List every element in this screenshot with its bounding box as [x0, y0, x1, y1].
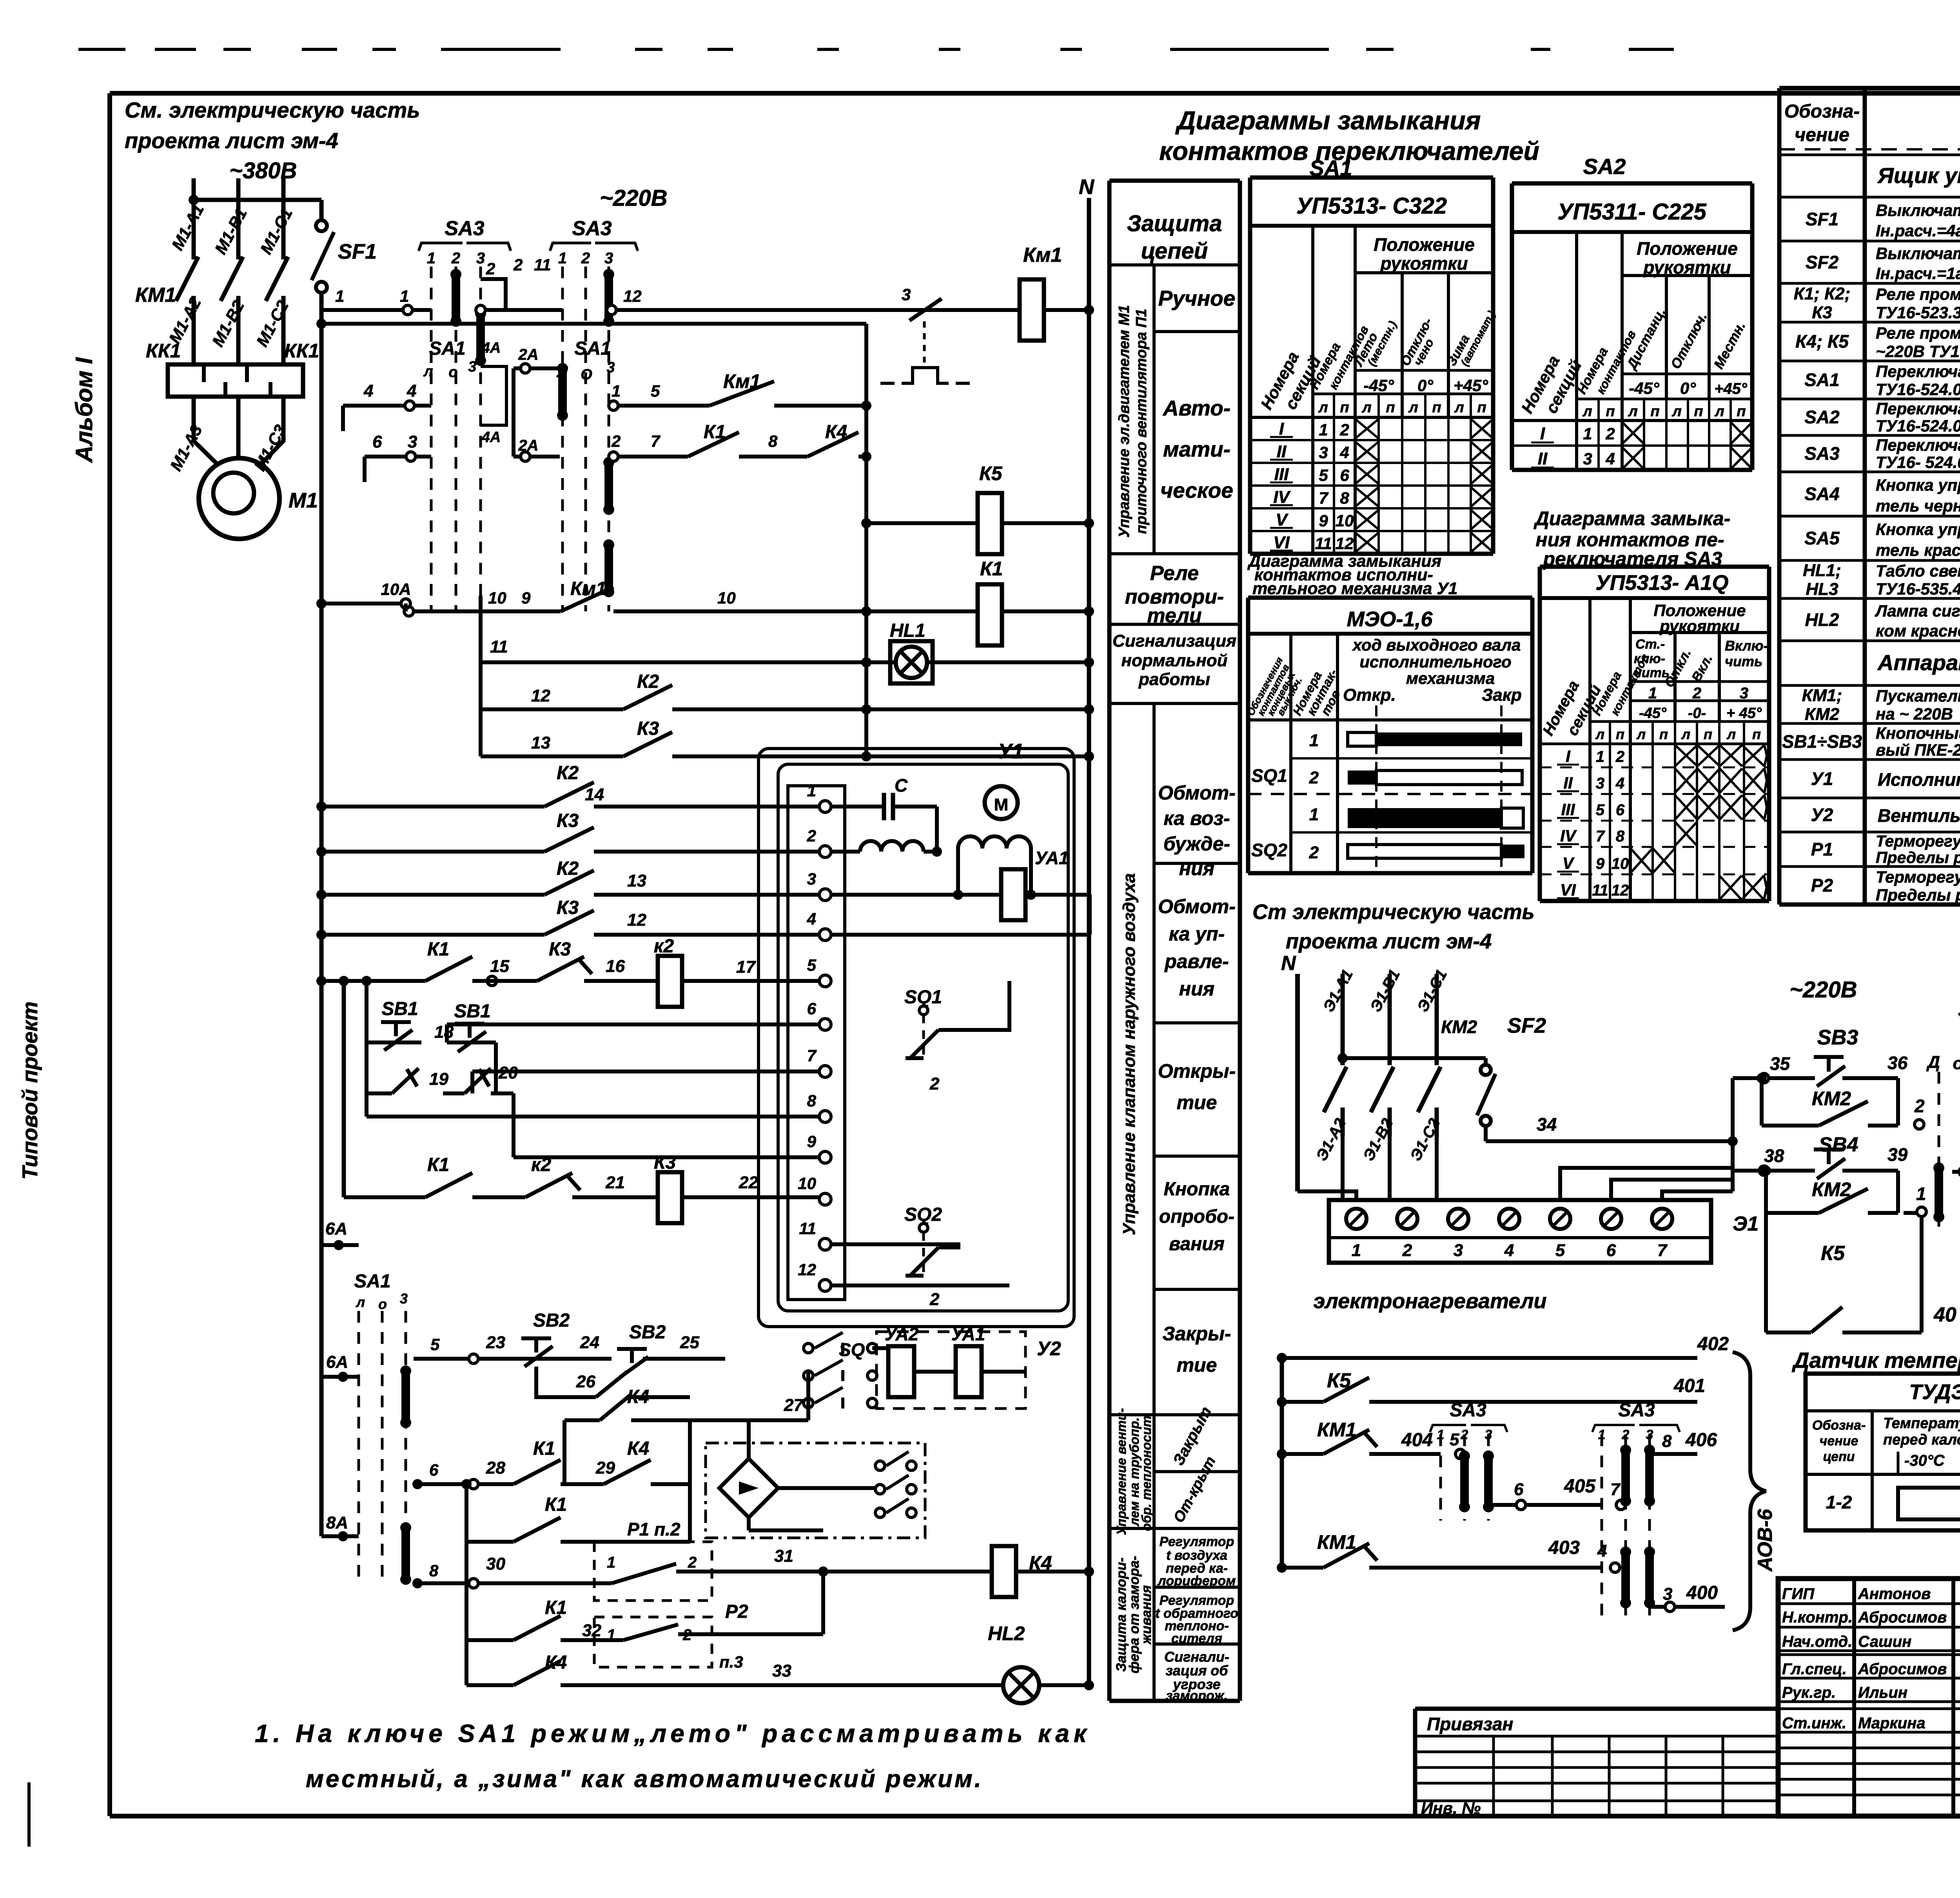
- svg-text:9: 9: [1319, 511, 1328, 530]
- svg-text:тель красный „Стоп" ТУ16-526.4: тель красный „Стоп" ТУ16-526.407-76: [1876, 541, 1960, 559]
- svg-text:II: II: [1563, 774, 1573, 792]
- svg-text:2: 2: [929, 1290, 940, 1309]
- svg-text:ТУ16-523.331-78: ТУ16-523.331-78: [1876, 303, 1960, 322]
- svg-text:ком красного цвета ТУ16-535.4: ком красного цвета ТУ16-535.417-75: [1876, 622, 1960, 640]
- svg-text:7: 7: [651, 432, 661, 450]
- svg-text:1: 1: [612, 382, 621, 400]
- svg-text:клю-: клю-: [1634, 651, 1665, 666]
- svg-text:Д: Д: [1926, 1053, 1940, 1072]
- svg-text:Абросимов: Абросимов: [1858, 1609, 1947, 1626]
- svg-text:7: 7: [807, 1046, 817, 1065]
- svg-text:Переключатель универсальный УП: Переключатель универсальный УП5313-А19: [1876, 436, 1960, 454]
- svg-text:1: 1: [1583, 424, 1592, 443]
- svg-text:1: 1: [1309, 731, 1319, 750]
- svg-text:VI: VI: [1560, 881, 1576, 899]
- svg-text:Управление эл.двигателем М1: Управление эл.двигателем М1: [1116, 305, 1132, 538]
- svg-text:402: 402: [1697, 1334, 1729, 1354]
- svg-text:Обозна-: Обозна-: [1784, 101, 1860, 122]
- svg-text:рукоятки: рукоятки: [1659, 617, 1740, 635]
- svg-text:л: л: [1714, 403, 1724, 420]
- svg-text:перед калорифером: перед калорифером: [1883, 1432, 1960, 1448]
- svg-text:6: 6: [1514, 1480, 1524, 1499]
- svg-text:4: 4: [1339, 443, 1349, 462]
- svg-text:SB1: SB1: [454, 1001, 490, 1022]
- svg-text:Обмот-: Обмот-: [1158, 782, 1236, 804]
- svg-text:3: 3: [400, 1291, 408, 1307]
- svg-text:8А: 8А: [326, 1513, 348, 1532]
- svg-text:2А: 2А: [518, 346, 538, 363]
- svg-text:HL2: HL2: [1805, 609, 1839, 630]
- svg-text:К1: К1: [980, 558, 1003, 580]
- svg-text:МЭО-1,6: МЭО-1,6: [1347, 607, 1433, 631]
- svg-text:~220В ТУ16-523.331-78: ~220В ТУ16-523.331-78: [1876, 342, 1960, 361]
- svg-text:10: 10: [798, 1174, 816, 1193]
- svg-text:406: 406: [1685, 1430, 1717, 1450]
- svg-text:7: 7: [1596, 828, 1605, 845]
- svg-text:рукоятки: рукоятки: [1379, 253, 1468, 274]
- svg-text:II: II: [1277, 442, 1287, 461]
- svg-text:равле-: равле-: [1164, 950, 1229, 972]
- svg-text:К1: К1: [533, 1438, 555, 1459]
- svg-text:SB2: SB2: [533, 1310, 570, 1331]
- svg-text:3: 3: [1454, 1241, 1463, 1260]
- svg-text:п: п: [1606, 403, 1615, 420]
- svg-text:п: п: [1659, 726, 1668, 742]
- svg-text:механизма: механизма: [1406, 669, 1495, 687]
- svg-text:К2: К2: [637, 671, 659, 692]
- svg-text:Iн.расч.=1а;Iотс=1,3Iн ТУ16-: Iн.расч.=1а;Iотс=1,3Iн ТУ16-522.110-74: [1876, 264, 1960, 283]
- svg-text:УП5313- А1Q: УП5313- А1Q: [1595, 571, 1729, 595]
- svg-text:л: л: [1454, 399, 1464, 416]
- svg-text:2: 2: [581, 250, 590, 267]
- svg-text:УА1: УА1: [951, 1324, 985, 1344]
- svg-text:SA4: SA4: [1804, 484, 1839, 504]
- svg-text:22: 22: [739, 1173, 758, 1192]
- svg-text:SВ4: SВ4: [1818, 1133, 1858, 1156]
- svg-text:Пределы регулирования от-30°С: Пределы регулирования от-30°С до+40°С: [1876, 848, 1960, 867]
- svg-text:2: 2: [513, 256, 523, 274]
- svg-text:8: 8: [1340, 489, 1349, 507]
- svg-text:КМ1: КМ1: [1317, 1531, 1356, 1553]
- svg-text:ТУ16- 524.074-75: ТУ16- 524.074-75: [1876, 453, 1960, 471]
- svg-text:Кнопка: Кнопка: [1164, 1179, 1230, 1200]
- svg-text:12: 12: [1612, 882, 1629, 899]
- svg-text:14: 14: [585, 785, 604, 804]
- svg-text:п: п: [1650, 403, 1659, 420]
- svg-text:Защита: Защита: [1127, 211, 1222, 236]
- svg-text:3: 3: [604, 250, 613, 267]
- svg-text:проекта лист эм-4: проекта лист эм-4: [1286, 930, 1492, 953]
- svg-text:10: 10: [1336, 511, 1354, 530]
- svg-text:38: 38: [1764, 1146, 1784, 1166]
- svg-text:исполнительного: исполнительного: [1359, 653, 1511, 671]
- svg-text:12: 12: [623, 287, 642, 305]
- svg-text:9: 9: [521, 589, 531, 607]
- svg-text:вания: вания: [1169, 1234, 1225, 1254]
- svg-text:13: 13: [627, 871, 646, 890]
- svg-text:3: 3: [1596, 775, 1604, 792]
- svg-text:УП5313- С322: УП5313- С322: [1296, 193, 1447, 219]
- svg-text:ТУ16-524.074-75: ТУ16-524.074-75: [1876, 417, 1960, 435]
- svg-text:N: N: [1079, 175, 1094, 199]
- svg-text:КМ1;: КМ1;: [1802, 686, 1842, 705]
- svg-text:п: п: [1477, 399, 1486, 416]
- svg-text:SA3: SA3: [1804, 443, 1840, 464]
- svg-text:404: 404: [1401, 1430, 1433, 1450]
- svg-text:1: 1: [558, 250, 567, 267]
- svg-text:5: 5: [651, 382, 660, 400]
- svg-text:SA1: SA1: [1804, 370, 1839, 390]
- svg-text:28: 28: [486, 1458, 505, 1477]
- svg-text:К5: К5: [979, 462, 1003, 484]
- svg-text:1: 1: [1352, 1241, 1361, 1260]
- svg-text:0°: 0°: [1417, 376, 1434, 395]
- svg-text:2: 2: [1339, 421, 1349, 439]
- svg-text:-45°: -45°: [1363, 376, 1394, 395]
- svg-text:цепи: цепи: [1823, 1449, 1855, 1464]
- svg-text:4: 4: [1597, 1541, 1607, 1561]
- svg-text:3: 3: [408, 432, 417, 451]
- svg-text:Реле: Реле: [1150, 562, 1199, 585]
- svg-text:4: 4: [407, 381, 416, 401]
- svg-text:35: 35: [1770, 1053, 1791, 1074]
- svg-text:тель черный „пуск" ТУ 16-526.: тель черный „пуск" ТУ 16-526.407-76: [1876, 497, 1960, 515]
- svg-text:Абросимов: Абросимов: [1858, 1661, 1947, 1678]
- svg-text:6: 6: [1606, 1241, 1616, 1260]
- svg-text:3: 3: [1740, 685, 1748, 702]
- svg-text:39: 39: [1887, 1144, 1908, 1165]
- svg-text:2: 2: [451, 250, 460, 267]
- svg-text:III: III: [1274, 465, 1289, 484]
- svg-text:С: С: [895, 775, 908, 796]
- svg-text:13: 13: [531, 733, 550, 752]
- svg-text:11: 11: [490, 637, 508, 656]
- svg-text:К1: К1: [427, 939, 449, 960]
- svg-text:IV: IV: [1273, 488, 1291, 507]
- svg-text:405: 405: [1564, 1476, 1596, 1497]
- svg-text:1: 1: [1596, 748, 1604, 765]
- svg-text:I: I: [1566, 747, 1571, 765]
- svg-text:+45°: +45°: [1454, 376, 1488, 395]
- svg-text:5: 5: [1596, 801, 1605, 819]
- svg-text:У1: У1: [998, 740, 1024, 763]
- svg-text:Реле промежуточное РПУ-2-36420: Реле промежуточное РПУ-2-36420343;~220В: [1876, 285, 1960, 303]
- svg-text:SF2: SF2: [1806, 252, 1839, 272]
- svg-text:33: 33: [772, 1661, 791, 1680]
- svg-text:9: 9: [1596, 855, 1605, 872]
- svg-text:М1: М1: [289, 489, 318, 512]
- svg-text:25: 25: [680, 1333, 699, 1352]
- svg-text:5: 5: [1319, 466, 1328, 484]
- svg-text:живания: живания: [1139, 1585, 1154, 1645]
- svg-text:п: п: [1752, 726, 1761, 742]
- svg-text:заморож.: заморож.: [1166, 1688, 1228, 1703]
- svg-text:тельного механизма У1: тельного механизма У1: [1252, 579, 1457, 598]
- svg-text:6: 6: [1340, 466, 1349, 484]
- svg-text:2: 2: [1402, 1241, 1412, 1260]
- svg-text:SB1: SB1: [381, 999, 418, 1019]
- svg-text:9: 9: [807, 1132, 817, 1151]
- svg-text:КК1: КК1: [284, 340, 319, 362]
- svg-text:2: 2: [688, 1554, 697, 1571]
- svg-text:л: л: [1582, 403, 1592, 420]
- svg-text:30: 30: [486, 1554, 505, 1574]
- svg-text:п: п: [1340, 399, 1349, 416]
- svg-text:34: 34: [1537, 1114, 1557, 1135]
- svg-text:Диаграммы замыкания: Диаграммы замыкания: [1175, 106, 1481, 135]
- svg-text:II: II: [1538, 449, 1548, 468]
- svg-text:к2: к2: [654, 936, 674, 957]
- svg-text:ния контактов пе-: ния контактов пе-: [1535, 529, 1724, 551]
- svg-text:Ст.инж.: Ст.инж.: [1782, 1715, 1846, 1732]
- svg-text:УА1: УА1: [1035, 848, 1069, 868]
- svg-text:12: 12: [1336, 534, 1354, 553]
- svg-text:Реле промежуточное РПУ-2-36220: Реле промежуточное РПУ-2-36220343: [1876, 324, 1960, 342]
- svg-text:8: 8: [807, 1091, 817, 1110]
- svg-text:лорифером: лорифером: [1157, 1574, 1236, 1588]
- svg-text:Р1: Р1: [1811, 839, 1833, 859]
- svg-text:обр. теплоносит.: обр. теплоносит.: [1139, 1412, 1154, 1531]
- svg-text:Гл.спец.: Гл.спец.: [1782, 1661, 1847, 1678]
- svg-text:7: 7: [1657, 1241, 1668, 1260]
- svg-text:403: 403: [1548, 1537, 1580, 1558]
- svg-text:-0-: -0-: [1688, 705, 1706, 721]
- svg-text:SB3: SB3: [1817, 1026, 1858, 1049]
- svg-text:40: 40: [1933, 1303, 1956, 1326]
- svg-text:SB1÷SB3: SB1÷SB3: [1782, 731, 1862, 752]
- svg-text:Управление венти-: Управление венти-: [1114, 1408, 1129, 1535]
- svg-text:2: 2: [486, 259, 495, 278]
- svg-text:2: 2: [1692, 685, 1701, 702]
- svg-text:10А: 10А: [381, 580, 411, 598]
- svg-text:Рук.гр.: Рук.гр.: [1782, 1684, 1836, 1701]
- svg-text:SQ1: SQ1: [1251, 765, 1287, 786]
- svg-text:Привязан: Привязан: [1427, 1714, 1513, 1734]
- svg-text:I: I: [1540, 424, 1545, 443]
- svg-text:К1: К1: [427, 1155, 449, 1175]
- svg-text:7: 7: [1319, 489, 1328, 507]
- svg-text:8: 8: [429, 1561, 439, 1580]
- svg-text:К2: К2: [557, 763, 579, 783]
- svg-text:1: 1: [1319, 421, 1328, 439]
- svg-text:2: 2: [1309, 843, 1319, 862]
- svg-text:4: 4: [807, 910, 816, 928]
- svg-text:Исполнительный механизм МЭО-1,: Исполнительный механизм МЭО-1,6/25-0,25: [1878, 769, 1960, 790]
- svg-text:Выключатель автоматический А63: Выключатель автоматический А63-М: [1876, 244, 1960, 263]
- svg-text:SA3: SA3: [445, 217, 484, 240]
- svg-text:-30°С: -30°С: [1904, 1452, 1945, 1469]
- svg-text:опробо-: опробо-: [1159, 1206, 1234, 1227]
- svg-text:Авто-: Авто-: [1162, 396, 1230, 420]
- svg-text:чение: чение: [1820, 1434, 1858, 1448]
- svg-text:Положение: Положение: [1637, 238, 1738, 259]
- svg-text:21: 21: [605, 1173, 625, 1192]
- svg-text:SA2: SA2: [1804, 407, 1840, 427]
- svg-text:SF1: SF1: [338, 240, 377, 263]
- svg-text:3: 3: [1583, 450, 1592, 468]
- svg-text:КМ2: КМ2: [1812, 1088, 1851, 1109]
- svg-text:1: 1: [1916, 1184, 1926, 1204]
- svg-text:л: л: [423, 363, 433, 380]
- svg-text:тие: тие: [1177, 1091, 1217, 1113]
- svg-text:Кнопка управления КЕ011У3; исп: Кнопка управления КЕ011У3; исп.2 толка-: [1876, 520, 1960, 538]
- svg-text:Антонов: Антонов: [1858, 1585, 1931, 1603]
- svg-text:SA3: SA3: [572, 217, 612, 240]
- svg-text:17: 17: [736, 957, 756, 977]
- svg-text:3: 3: [468, 359, 476, 375]
- svg-text:Датчик температуры Р2: Датчик температуры Р2: [1792, 1348, 1960, 1372]
- svg-text:Ящик управления ЯУ1: Ящик управления ЯУ1: [1877, 163, 1960, 188]
- svg-text:Откры-: Откры-: [1158, 1060, 1236, 1082]
- svg-text:АОВ-6: АОВ-6: [1754, 1508, 1777, 1572]
- svg-text:чение: чение: [1795, 125, 1849, 145]
- svg-text:сителя: сителя: [1171, 1631, 1222, 1646]
- svg-text:к2: к2: [531, 1155, 551, 1175]
- svg-text:SA1: SA1: [574, 338, 611, 359]
- svg-text:8: 8: [768, 432, 778, 450]
- svg-text:о: о: [1953, 1054, 1960, 1073]
- svg-text:Вентиль 15кч892П3: Вентиль 15кч892П3: [1878, 805, 1960, 826]
- svg-text:-45°: -45°: [1639, 705, 1667, 721]
- svg-text:Закры-: Закры-: [1162, 1323, 1231, 1345]
- svg-text:3: 3: [902, 285, 911, 304]
- svg-text:SА3: SА3: [1618, 1400, 1655, 1421]
- svg-text:2: 2: [929, 1074, 940, 1093]
- svg-text:2: 2: [1914, 1096, 1925, 1116]
- svg-text:Закр: Закр: [1482, 685, 1522, 705]
- svg-text:КМ1: КМ1: [135, 284, 176, 306]
- svg-text:л: л: [1671, 403, 1682, 420]
- svg-text:Км1: Км1: [1023, 244, 1062, 266]
- svg-text:Р1 п.2: Р1 п.2: [627, 1519, 681, 1539]
- svg-text:о: о: [448, 364, 457, 381]
- svg-text:2: 2: [611, 432, 621, 450]
- svg-text:М: М: [994, 795, 1009, 814]
- svg-text:4: 4: [363, 381, 373, 401]
- svg-text:п: п: [1616, 726, 1624, 742]
- svg-text:К3: К3: [1812, 303, 1832, 322]
- svg-text:К3: К3: [637, 718, 659, 739]
- svg-text:Переключатель универсальный УП: Переключатель универсальный УП5313-С322: [1876, 362, 1960, 381]
- svg-text:11: 11: [534, 256, 551, 274]
- svg-text:К3: К3: [549, 939, 571, 960]
- svg-text:4А: 4А: [481, 429, 501, 446]
- svg-text:К3: К3: [557, 810, 579, 831]
- svg-text:SA5: SA5: [1804, 528, 1840, 548]
- svg-text:2: 2: [1605, 424, 1615, 443]
- svg-text:6: 6: [429, 1461, 439, 1479]
- svg-text:Типовой проект: Типовой проект: [18, 1001, 42, 1180]
- svg-text:п: п: [1694, 403, 1703, 420]
- svg-text:ния: ния: [1179, 857, 1214, 879]
- svg-text:15: 15: [490, 957, 509, 976]
- svg-text:К5: К5: [1821, 1242, 1845, 1265]
- svg-text:8: 8: [1616, 828, 1625, 845]
- svg-text:К1; К2;: К1; К2;: [1794, 284, 1851, 303]
- svg-text:5: 5: [1450, 1430, 1459, 1449]
- svg-text:Км1: Км1: [570, 578, 606, 599]
- svg-text:26: 26: [576, 1372, 595, 1391]
- svg-text:УА2: УА2: [885, 1324, 919, 1344]
- svg-text:4: 4: [1615, 775, 1624, 792]
- svg-text:К4: К4: [627, 1438, 649, 1459]
- svg-text:12: 12: [627, 910, 646, 930]
- svg-text:Терморегулирующее устройство Т: Терморегулирующее устройство ТУДЭ-4: [1876, 868, 1960, 886]
- svg-text:л: л: [1636, 726, 1646, 742]
- svg-text:1: 1: [1309, 805, 1319, 824]
- svg-text:11: 11: [1592, 882, 1608, 899]
- svg-text:п.3: п.3: [719, 1653, 743, 1671]
- svg-text:3: 3: [606, 359, 615, 376]
- svg-text:1: 1: [427, 250, 436, 267]
- svg-text:2: 2: [807, 827, 816, 845]
- svg-text:5: 5: [430, 1335, 440, 1354]
- svg-text:SA2: SA2: [1583, 154, 1626, 179]
- svg-text:Маркина: Маркина: [1858, 1715, 1926, 1732]
- svg-text:Кнопка управления КЕ011У3; исп: Кнопка управления КЕ011У3; исп.2 толка-: [1876, 476, 1960, 494]
- svg-text:электронагреватели: электронагреватели: [1313, 1289, 1546, 1313]
- svg-text:+45°: +45°: [1714, 380, 1748, 397]
- svg-text:ТУДЭ-1-2: ТУДЭ-1-2: [1909, 1380, 1960, 1404]
- svg-text:Регулятор: Регулятор: [1160, 1534, 1234, 1549]
- svg-text:тели: тели: [1147, 604, 1201, 627]
- svg-text:29: 29: [595, 1458, 615, 1477]
- svg-text:SА3: SА3: [1450, 1400, 1486, 1421]
- svg-text:1: 1: [607, 1554, 615, 1571]
- svg-text:III: III: [1561, 800, 1575, 819]
- svg-text:местный, а „зима" как автомат: местный, а „зима" как автоматический реж…: [306, 1766, 983, 1793]
- svg-text:о: о: [378, 1296, 387, 1312]
- svg-text:SB2: SB2: [629, 1322, 666, 1343]
- svg-text:Р2: Р2: [1811, 875, 1833, 896]
- svg-text:Сашин: Сашин: [1858, 1633, 1911, 1650]
- svg-text:К3: К3: [654, 1152, 676, 1173]
- svg-text:SA1: SA1: [429, 338, 465, 359]
- svg-text:5: 5: [807, 956, 817, 974]
- svg-text:11: 11: [1315, 534, 1332, 553]
- svg-text:Аппаратура по месту: Аппаратура по месту: [1877, 650, 1960, 675]
- svg-text:л: л: [1361, 399, 1372, 416]
- svg-text:SA2: SA2: [1958, 998, 1960, 1022]
- svg-text:Нач.отд.: Нач.отд.: [1782, 1633, 1852, 1650]
- svg-text:п: п: [1386, 399, 1395, 416]
- svg-text:V: V: [1276, 510, 1289, 529]
- svg-text:Вклю-: Вклю-: [1725, 638, 1768, 654]
- svg-text:32: 32: [582, 1621, 601, 1640]
- svg-text:ка воз-: ка воз-: [1163, 807, 1230, 829]
- svg-text:Пределы регулирования от 0°С д: Пределы регулирования от 0°С до+250°С: [1876, 886, 1960, 904]
- svg-text:6: 6: [1616, 801, 1625, 819]
- svg-text:тие: тие: [1177, 1354, 1217, 1376]
- svg-text:1: 1: [400, 287, 409, 305]
- svg-text:IV: IV: [1560, 827, 1577, 845]
- svg-text:К1: К1: [545, 1597, 567, 1618]
- svg-text:+ 45°: + 45°: [1726, 705, 1762, 721]
- svg-text:2: 2: [1615, 748, 1624, 765]
- svg-text:Лампа сигнальная ЛС-53;~220В с: Лампа сигнальная ЛС-53;~220В с колпач-: [1875, 602, 1960, 620]
- svg-text:1: 1: [1648, 685, 1657, 702]
- svg-text:ния: ния: [1179, 978, 1214, 1000]
- svg-text:Переключатель универсальный УП: Переключатель универсальный УП5311-С225: [1876, 399, 1960, 418]
- svg-text:бужде-: бужде-: [1163, 833, 1230, 855]
- svg-text:Температура воздуха: Температура воздуха: [1883, 1415, 1960, 1432]
- svg-text:5: 5: [1555, 1241, 1565, 1260]
- svg-text:приточного вентилятора П1: приточного вентилятора П1: [1133, 309, 1150, 534]
- svg-text:10: 10: [717, 589, 736, 607]
- svg-text:4А: 4А: [481, 340, 501, 356]
- svg-text:31: 31: [774, 1546, 793, 1566]
- svg-text:3: 3: [807, 870, 816, 888]
